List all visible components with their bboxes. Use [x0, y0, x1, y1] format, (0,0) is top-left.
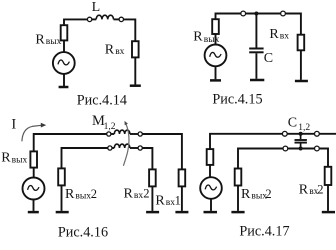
wire: resistor to source G4 — [209, 165, 211, 177]
resistor R_out 4.15 (Rвых) — [212, 19, 219, 34]
svg-text:вх: вх — [280, 31, 289, 41]
resistor source-side 4.17 — [207, 149, 214, 165]
svg-text:R: R — [65, 187, 75, 202]
wire: k5 to primary coil — [111, 133, 114, 135]
terminal k9 (open circle) — [282, 131, 287, 136]
terminal k12 (open circle) — [315, 146, 320, 151]
svg-text:вых: вых — [12, 155, 28, 165]
svg-text:вых: вых — [46, 37, 62, 47]
terminal k8 (open circle) — [138, 146, 142, 150]
svg-text:2: 2 — [265, 187, 271, 201]
current direction arrow — [22, 123, 46, 142]
svg-text:вх: вх — [115, 47, 124, 57]
source G3 (AC) — [23, 178, 45, 200]
label C 1,2 — [288, 115, 311, 133]
wire: coil to terminal k2 — [114, 18, 120, 20]
terminal bar under Rвх2 4.17 — [322, 211, 335, 214]
terminal k7 (open circle) — [108, 146, 112, 150]
resistor Rвых2 — [58, 168, 65, 185]
svg-text:R: R — [1, 151, 11, 166]
terminal bar bottom-mid 4.15 — [250, 79, 264, 82]
terminal k2 (open circle) — [119, 17, 123, 21]
label Rвх — [105, 43, 125, 58]
svg-text:R: R — [193, 30, 203, 45]
svg-text:1: 1 — [175, 194, 181, 208]
junction node top of C12 — [299, 132, 303, 136]
svg-text:вх: вх — [134, 191, 143, 201]
wire: k6 right and down to R_in1 — [142, 134, 182, 169]
inductor M primary coil — [114, 130, 130, 134]
label Rвых2 4.17 — [241, 187, 272, 202]
svg-text:вых: вых — [75, 192, 91, 202]
wire: Rвх2 bottom stub — [151, 186, 153, 211]
terminal k10 (open circle) — [315, 131, 320, 136]
wire: k10 to right edge — [319, 133, 336, 135]
wire: Rвх1 bottom stub — [181, 186, 183, 211]
resistor R_in (Rвх) — [132, 41, 139, 57]
wire: k12 right and down to Rвх2 — [319, 149, 328, 167]
terminal bar under Rвых2 4.17 — [231, 211, 244, 214]
resistor Rвх2 — [149, 169, 156, 186]
wire: lower-left corner from Rвых2 up to k7 — [62, 148, 108, 168]
wire: Rвх2 bottom stub 4.17 — [327, 185, 329, 211]
wire: secondary coil to k8 — [130, 147, 138, 149]
wire: k9 to k10 — [287, 133, 314, 135]
wire: top-left corner from R_out top to terminal k1 — [64, 19, 87, 25]
wire: k8 right and down to Rвх2 — [142, 148, 152, 169]
wire: G1 bottom stub — [63, 74, 65, 86]
terminal bar under Rвх1 — [175, 211, 188, 214]
svg-text:Рис.4.14: Рис.4.14 — [77, 93, 127, 109]
svg-text:R: R — [155, 194, 165, 209]
capacitor C — [249, 49, 263, 53]
svg-text:Рис.4.15: Рис.4.15 — [212, 92, 262, 108]
wire: R_out bottom to source G1 — [63, 40, 65, 52]
svg-text:C: C — [264, 51, 273, 66]
terminal bar under G4 — [204, 211, 218, 214]
label Rвых 4.15 — [193, 30, 219, 45]
terminal bar under Rвых2 — [56, 211, 69, 214]
svg-text:R: R — [124, 187, 134, 202]
label Rвых 4.16 — [1, 151, 27, 166]
resistor R_in 4.15 (Rвх) — [298, 35, 305, 51]
svg-text:R: R — [105, 43, 115, 58]
junction node bottom of C12 — [299, 147, 303, 151]
svg-text:R: R — [35, 33, 45, 48]
resistor R_out 4.16 (Rвых) — [30, 151, 37, 167]
svg-text:L: L — [92, 0, 101, 15]
terminal bar bottom-right 4.15 — [295, 80, 308, 83]
terminal bar bottom-right 4.14 — [130, 84, 141, 87]
terminal k5 (open circle) — [107, 132, 111, 136]
resistor Rвх1 — [179, 169, 186, 186]
wire: capacitor branch from junction down — [255, 14, 257, 48]
svg-text:2: 2 — [317, 183, 323, 197]
terminal k11 (open circle) — [283, 146, 288, 151]
resistor Rвх2 4.17 — [325, 167, 332, 185]
wire: k7 to secondary coil — [112, 147, 114, 149]
terminal k1 (open circle) — [87, 17, 91, 21]
svg-text:Рис.4.16: Рис.4.16 — [58, 225, 108, 241]
terminal k3 (open circle) — [241, 11, 246, 16]
svg-text:вых: вых — [204, 35, 220, 45]
wire: k1 to coil — [92, 18, 96, 20]
label M 1,2 — [92, 113, 116, 132]
svg-text:1,2: 1,2 — [104, 122, 116, 132]
svg-text:R: R — [299, 183, 309, 198]
wire: capacitor to bottom stub — [255, 53, 257, 79]
label Rвых2 — [65, 187, 97, 202]
terminal bar under Rвх2 — [146, 211, 159, 214]
svg-text:C: C — [288, 115, 297, 130]
wire: R_out to source G3 — [33, 168, 35, 178]
wire: R_in bottom stub 4.15 — [300, 50, 302, 80]
terminal k6 (open circle) — [138, 132, 142, 136]
wire: G3 bottom stub — [33, 200, 35, 211]
wire: primary coil to k6 — [130, 133, 138, 135]
inductor M secondary coil — [114, 144, 130, 148]
wire: lower-left corner from Rвых2 up to k11 — [238, 149, 283, 169]
wire: corner from source resistor up and right to k9 — [210, 134, 282, 149]
source G1 (AC) — [53, 52, 75, 74]
svg-text:R: R — [241, 187, 251, 202]
label Rвх 4.15 — [269, 27, 289, 42]
terminal bar under G3 — [28, 211, 39, 214]
resistor Rвых2 4.17 — [235, 169, 242, 186]
junction node on top wire — [254, 12, 258, 16]
source G2 (AC) — [205, 45, 227, 67]
wire: corner from R_out top to terminal k3 — [216, 14, 241, 20]
inductor L (3-hump coil) — [96, 15, 113, 19]
svg-text:2: 2 — [143, 187, 149, 201]
variable coupling arrow through M — [123, 121, 129, 166]
label Rвых — [35, 33, 61, 48]
terminal bar bottom-left 4.14 — [59, 86, 69, 89]
source G4 (AC) — [200, 177, 222, 199]
svg-text:R: R — [269, 27, 279, 42]
wire: corner from R_out top up and right to k5 — [34, 134, 107, 151]
wire: G2 bottom stub — [215, 66, 217, 79]
wire: k11 to k12 — [288, 148, 315, 150]
svg-text:1,2: 1,2 — [298, 123, 310, 133]
svg-text:2: 2 — [91, 187, 97, 201]
terminal k4 (open circle) — [281, 11, 286, 16]
wire: R_in bottom stub — [134, 57, 136, 85]
label Rвх2 — [124, 187, 150, 202]
resistor R_out (Rвых) — [61, 25, 68, 40]
svg-text:Рис.4.17: Рис.4.17 — [239, 223, 289, 239]
terminal bar bottom-left 4.15 — [210, 79, 221, 82]
wire: R_out to source G2 — [215, 34, 217, 45]
capacitor C12 between lines — [295, 134, 307, 149]
wire: k2 to top-right corner down to R_in top — [124, 19, 136, 41]
svg-text:I: I — [11, 117, 16, 133]
wire: G4 bottom stub — [210, 199, 212, 211]
wire: Rвых2 bottom stub — [61, 185, 63, 211]
wire: k3 to k4 — [246, 13, 281, 15]
label Rвх2 4.17 — [299, 183, 324, 198]
wire: k4 to corner down to R_in top — [285, 14, 301, 35]
label Rвх1 — [155, 194, 180, 209]
wire: Rвых2 bottom stub 4.17 — [237, 186, 239, 211]
